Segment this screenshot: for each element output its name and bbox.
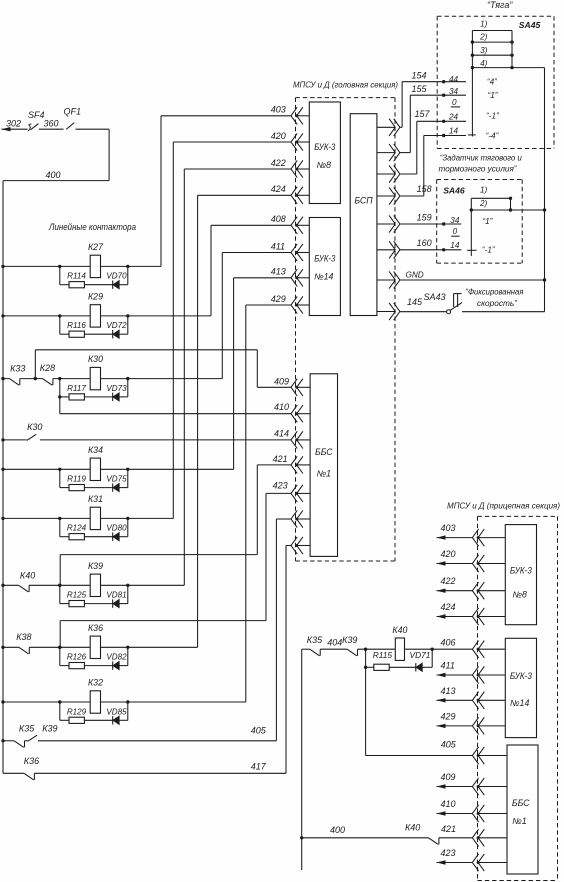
dashed box МПСУ прицепная секция [447,500,560,880]
svg-text:VD85: VD85 [106,707,127,716]
wire 414 with contact К30 [1,422,291,442]
block БУК-3 №14 pricep [505,638,536,737]
wire 410 [58,395,291,414]
svg-text:429: 429 [271,294,286,304]
svg-text:421: 421 [273,454,288,464]
chevron port [291,244,309,261]
wire 405 riser [276,519,291,741]
svg-text:К38: К38 [16,632,31,642]
wire К36 row [1,646,197,649]
svg-text:0: 0 [452,98,457,107]
svg-text:“Фиксированная: “Фиксированная [465,287,523,297]
svg-text:14: 14 [449,126,459,135]
svg-text:VD80: VD80 [106,524,127,533]
svg-text:409: 409 [441,772,456,782]
diode VD73 [106,384,127,401]
contactor coil К31 [88,494,103,530]
chevron port [291,537,310,554]
wire 410 pricep stub [437,799,508,822]
resistor R126 [67,653,87,669]
chevron БСП out [377,241,400,258]
chevron port [291,510,310,527]
svg-text:“1”: “1” [482,217,493,226]
label Фиксированная скорость [465,287,523,309]
svg-text:429: 429 [441,711,456,721]
resistor R114 [67,272,86,288]
SA46 row 2 [470,199,545,212]
svg-text:SF4: SF4 [28,110,45,120]
svg-text:МПСУ и Д (головная секция): МПСУ и Д (головная секция) [293,80,398,90]
wire 409 bridge [35,350,291,388]
circuit breaker SF4 [28,110,45,131]
svg-text:0: 0 [453,227,458,236]
svg-text:К31: К31 [88,494,103,504]
chevron БСП out [377,144,400,161]
wire 417 row [3,756,286,780]
svg-text:№8: №8 [512,590,527,600]
resistor R116 [67,321,86,337]
svg-text:411: 411 [441,661,455,671]
svg-text:К27: К27 [88,242,104,252]
svg-text:VD71: VD71 [410,650,431,660]
svg-text:405: 405 [441,740,457,750]
svg-text:SA45: SA45 [519,20,541,30]
wire 159 [400,212,461,225]
SA45 row 3 [471,46,514,57]
svg-text:413: 413 [441,686,456,696]
svg-text:К32: К32 [88,678,103,688]
contactor coil К39 [88,561,103,597]
svg-text:VD75: VD75 [106,475,127,484]
block БУК-3 №14 head [309,218,340,316]
svg-text:34: 34 [450,216,460,225]
SA45 left rail [468,31,476,137]
wire 420 [173,131,291,519]
contact К28 [34,363,56,385]
svg-text:422: 422 [441,576,456,586]
svg-text:R116: R116 [67,321,86,330]
svg-text:34: 34 [449,87,459,96]
svg-text:302: 302 [6,118,21,128]
wire К32 RC branch [58,700,129,720]
svg-text:360: 360 [44,118,59,128]
svg-text:VD73: VD73 [106,384,127,393]
wire 413 pricep stub [437,686,506,709]
dashed box МПСУ головная секция [293,80,398,562]
wire 154 [400,71,466,128]
diode VD85 [106,707,127,724]
svg-text:№1: №1 [512,816,527,826]
svg-text:14: 14 [450,241,460,250]
contactor coil К27 [88,242,104,278]
SA45 row 1 [472,19,512,30]
svg-text:2): 2) [479,32,488,41]
svg-text:К29: К29 [88,291,103,301]
svg-text:К30: К30 [27,422,42,432]
svg-text:155: 155 [412,84,428,94]
diode VD70 [106,272,127,289]
wire 155 [400,84,466,152]
svg-text:1): 1) [480,186,488,195]
svg-text:VD72: VD72 [106,321,127,330]
chevron port [291,107,309,124]
svg-text:К36: К36 [24,756,39,766]
svg-text:422: 422 [271,158,286,168]
chevron БСП out [377,271,400,288]
svg-text:БУК-3: БУК-3 [510,565,532,575]
wire 422 [184,158,291,586]
svg-text:408: 408 [271,214,286,224]
wire 409 pricep stub [437,772,508,795]
chevron port [291,217,309,234]
wire 405 pricep [366,667,507,764]
resistor R129 [67,707,87,723]
chevron port [291,160,309,177]
svg-text:406: 406 [441,637,456,647]
svg-text:3): 3) [480,46,488,55]
svg-text:№8: №8 [317,160,332,170]
contactor coil К36 [88,623,103,659]
svg-text:VD70: VD70 [106,272,127,281]
svg-text:К40: К40 [392,625,407,635]
svg-text:4): 4) [480,59,488,68]
dashed box Тяга [437,0,554,148]
svg-text:421: 421 [441,824,456,834]
wire 421 [58,454,291,587]
switch QF1 [64,107,82,130]
chevron БСП out [377,215,400,232]
svg-text:403: 403 [271,105,286,115]
SA46 terminals [450,216,460,250]
wire К27 row [1,265,161,268]
wire К34 row [1,468,233,471]
SA45 positions [486,78,500,141]
svg-text:410: 410 [274,402,289,412]
svg-text:К35: К35 [307,635,323,645]
svg-text:SA43: SA43 [424,292,446,302]
SA46 row 1 [471,186,512,201]
chevron БСП out [377,165,400,182]
svg-text:2): 2) [479,199,488,208]
svg-text:417: 417 [251,761,267,771]
wire К39 row [1,584,184,587]
wire К34 RC branch [58,468,129,488]
chevron port [291,296,309,313]
svg-text:“Задатчик тягового и: “Задатчик тягового и [440,152,522,162]
label Задатчик [439,152,523,173]
svg-text:R129: R129 [67,707,87,716]
svg-text:409: 409 [274,376,289,386]
svg-text:R125: R125 [67,591,87,600]
svg-text:24: 24 [448,112,459,121]
chevron port [291,431,310,448]
resistor R124 [67,524,87,540]
diode VD82 [106,653,127,670]
wire 360 [39,118,64,129]
block БСП [350,114,377,316]
SA45 terminal 44 [449,75,459,96]
label Линейные контактора [48,222,136,232]
wire К31 row [1,517,173,520]
wire QF1 to corner [76,129,110,180]
svg-text:145: 145 [407,297,423,307]
chevron port [291,456,310,473]
svg-text:К40: К40 [20,570,35,580]
svg-text:МПСУ и Д (прицепная секция): МПСУ и Д (прицепная секция) [447,500,560,510]
svg-text:№14: №14 [314,272,333,282]
svg-text:R115: R115 [373,650,393,660]
wire 429 pricep stub [437,711,506,734]
svg-text:413: 413 [271,267,286,277]
SA45 terminal 0 [451,98,460,107]
svg-text:157: 157 [415,109,431,119]
right rail from Тяга [543,68,546,312]
svg-text:К33: К33 [10,363,25,373]
svg-text:№1: №1 [317,469,332,479]
left bus wire 400 vertical [2,181,4,774]
SA45 right rail [511,31,513,68]
wire 423 [58,481,291,649]
wire К29 row [1,314,211,317]
svg-text:424: 424 [271,184,286,194]
svg-text:БУК-3: БУК-3 [314,142,335,152]
SA45 row 4 [471,59,545,70]
chevron port [291,269,309,286]
svg-text:424: 424 [441,602,456,612]
wire 158 [400,134,466,196]
chevron БСП out [377,303,400,320]
left bus pricep [300,649,303,870]
block ББС №1 pricep [507,745,538,874]
contactor coil К32 [88,678,103,714]
wire 145 [400,297,447,312]
wire 411 [222,241,291,378]
wire К27 RC branch [58,265,129,285]
block БУК-3 №8 pricep [505,525,536,625]
contactor coil К29 [88,291,103,327]
svg-text:423: 423 [441,848,456,858]
svg-text:К39: К39 [342,635,357,645]
svg-text:403: 403 [441,523,456,533]
contactor coil К30 [88,354,103,390]
SA46 right rail [510,198,512,210]
svg-text:“4”: “4” [487,78,498,87]
resistor R117 [67,384,86,400]
wire 408 [211,214,291,316]
SA46 left rail [467,198,476,256]
svg-text:К34: К34 [88,445,103,455]
svg-text:К39: К39 [88,561,103,571]
wire 400 top [3,170,109,181]
wire 403 [161,105,291,267]
svg-text:№14: №14 [510,698,529,708]
svg-text:404: 404 [327,637,342,647]
svg-text:QF1: QF1 [64,107,82,117]
wire 420 pricep stub [437,549,506,572]
wire К30 RC branch [58,377,129,397]
svg-text:1): 1) [480,19,488,28]
svg-text:158: 158 [417,184,432,194]
svg-text:411: 411 [271,241,285,251]
wire 302 with left arrow [2,118,28,131]
svg-text:К40: К40 [405,822,420,832]
wire R115 branch [364,649,432,669]
svg-text:410: 410 [441,799,456,809]
svg-text:БУК-3: БУК-3 [314,254,335,264]
svg-text:420: 420 [441,549,456,559]
chevron port [291,485,310,502]
resistor R125 [67,591,87,607]
svg-text:400: 400 [46,170,61,180]
svg-text:“-1”: “-1” [486,112,500,121]
chevron БСП out [377,119,400,136]
SA45 row 2 [471,32,514,43]
svg-text:скорость”: скорость” [477,298,518,308]
resistor R119 [67,475,86,491]
svg-text:GND: GND [406,270,424,279]
diode VD81 [106,591,126,608]
svg-text:ББС: ББС [512,798,530,808]
svg-text:400: 400 [330,825,345,835]
svg-text:44: 44 [449,75,459,84]
svg-text:159: 159 [417,212,432,222]
svg-text:БУК-3: БУК-3 [510,671,532,681]
resistor R115 [373,650,393,670]
wire 157 [400,109,466,174]
block ББС №1 head [310,374,337,557]
svg-text:R114: R114 [67,272,86,281]
contactor coil К40 pricep [392,625,407,660]
svg-text:R124: R124 [67,524,87,533]
svg-text:“1”: “1” [488,91,499,100]
wire 160 [400,238,461,251]
switch SA46 [443,186,465,196]
chevron port [291,379,310,396]
svg-text:R119: R119 [67,475,86,484]
chevron port [291,187,309,204]
wire 411 pricep stub [437,661,506,684]
svg-text:К35: К35 [19,723,35,733]
wire 405 row [1,723,276,747]
wire 424 pricep stub [437,602,506,625]
svg-text:БСП: БСП [354,195,373,205]
wire К31 RC branch [58,517,129,537]
wire 424 [198,184,291,647]
chevron БСП out [377,187,400,204]
svg-text:К39: К39 [42,723,57,733]
SA46 positions [482,217,496,254]
svg-text:“Тяга”: “Тяга” [487,0,513,10]
svg-text:“-4”: “-4” [486,131,500,140]
contact К38 [16,632,31,654]
svg-text:Линейные контактора: Линейные контактора [48,222,136,232]
wire К36 RC branch [58,646,129,666]
svg-text:VD82: VD82 [106,653,127,662]
block БУК-3 №8 head [309,102,340,204]
svg-text:420: 420 [271,131,286,141]
wire К29 RC branch [58,314,129,334]
svg-text:К36: К36 [88,623,103,633]
svg-text:160: 160 [417,238,432,248]
dashed box Задатчик [437,180,523,264]
wire 403 pricep stub [437,523,506,546]
wire 423 pricep stub [437,848,508,871]
chevron port [291,405,310,422]
svg-text:“-1”: “-1” [482,245,496,254]
diode VD75 [106,475,127,492]
svg-text:К28: К28 [40,363,55,373]
svg-text:R117: R117 [67,384,86,393]
svg-text:414: 414 [274,429,289,439]
contactor coil К34 [88,445,103,481]
svg-text:тормозного усилия”: тормозного усилия” [439,164,518,174]
svg-text:405: 405 [251,725,267,735]
wire К32 row [1,700,246,703]
contact К33 [9,363,25,385]
svg-text:SA46: SA46 [443,186,465,196]
wire 429 [246,294,291,702]
wire 422 pricep stub [437,576,506,599]
svg-text:К30: К30 [88,354,103,364]
wire GND [400,270,546,281]
wire 406 row [302,635,506,658]
svg-text:R126: R126 [67,653,87,662]
wire 400 bottom with contact К40 [302,822,507,846]
svg-text:154: 154 [412,71,427,81]
diode VD80 [106,524,127,541]
wire 413 [234,267,291,470]
switch SA45 [519,20,541,30]
chevron port [291,133,309,150]
svg-text:ББС: ББС [315,447,333,457]
svg-text:423: 423 [273,481,288,491]
diode VD72 [106,321,127,338]
diode VD71 [410,650,431,672]
wire К39 RC branch [58,584,129,604]
svg-text:VD81: VD81 [106,591,126,600]
wire К30 row [1,377,222,380]
wire 417 riser [286,546,291,774]
contact К40 [19,570,36,592]
switch SA43 Фиксированная скорость [424,292,545,314]
SA45 terminal 24 [448,112,459,135]
